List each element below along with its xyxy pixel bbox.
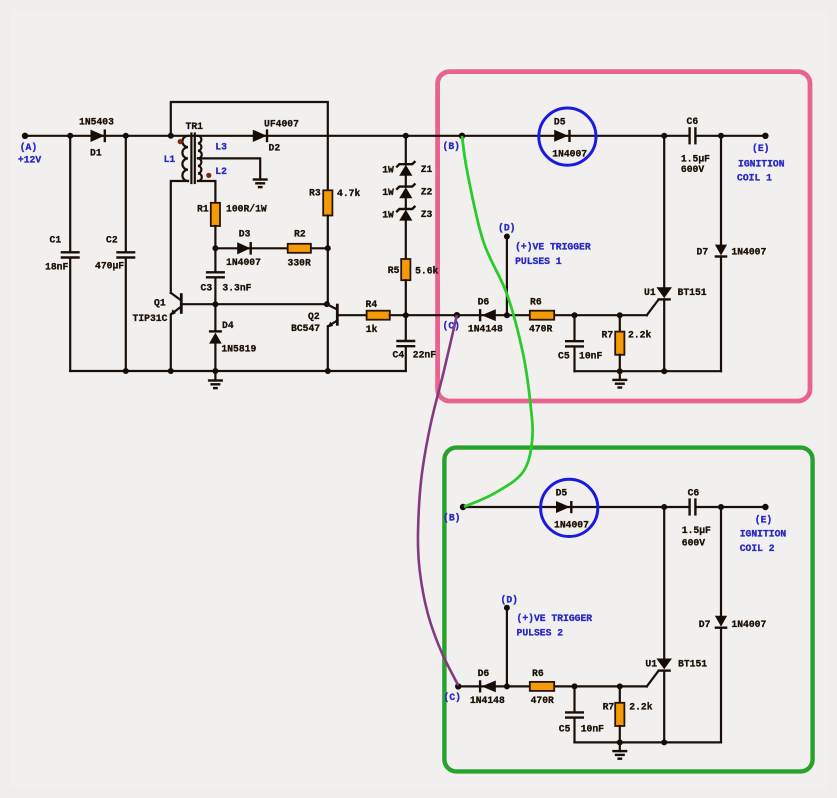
wire trigger row section 1 bbox=[457, 314, 647, 316]
resistor R2 330R bbox=[288, 244, 311, 253]
resistor R1 100R/1W bbox=[211, 203, 220, 226]
svg-text:C5: C5 bbox=[559, 723, 571, 734]
node D section 2 bbox=[506, 608, 508, 687]
node junction zener-top bbox=[403, 133, 409, 139]
svg-text:D2: D2 bbox=[269, 143, 281, 154]
svg-text:1N5403: 1N5403 bbox=[79, 117, 114, 128]
svg-text:R6: R6 bbox=[532, 668, 544, 679]
svg-text:BT151: BT151 bbox=[678, 658, 707, 669]
transistor Q2 BC547 bbox=[336, 304, 339, 326]
wire bottom section 1 bbox=[575, 370, 722, 372]
svg-text:470μF: 470μF bbox=[95, 261, 124, 272]
svg-text:Z3: Z3 bbox=[421, 209, 433, 220]
wire link B1 to B2 (green) bbox=[462, 136, 533, 507]
svg-text:R5: R5 bbox=[388, 265, 400, 276]
inductor L3 winding bbox=[198, 136, 202, 159]
wire C6 to E bbox=[696, 135, 765, 137]
diode D4 1N5819 bbox=[214, 304, 216, 331]
svg-text:L2: L2 bbox=[215, 166, 227, 177]
capacitor C1 18nF bbox=[69, 136, 71, 251]
node C section 1 bbox=[454, 312, 460, 318]
resistor R6 470R section 2 bbox=[530, 682, 554, 691]
node junction D7-top bbox=[718, 133, 724, 139]
node C section 2 bbox=[455, 683, 461, 689]
inductor L2 winding bbox=[198, 158, 202, 181]
svg-text:600V: 600V bbox=[681, 164, 704, 175]
box IGNITION COIL 2 (green) bbox=[444, 448, 812, 772]
svg-text:(D): (D) bbox=[498, 222, 515, 233]
capacitor C6 1.5uF 600V bbox=[688, 127, 690, 144]
svg-text:BT151: BT151 bbox=[678, 287, 707, 298]
diode D6 1N4148 section 1 bbox=[482, 309, 496, 321]
svg-text:C6: C6 bbox=[687, 116, 699, 127]
svg-text:R6: R6 bbox=[530, 297, 542, 308]
node B section 1 bbox=[459, 133, 465, 139]
svg-text:10nF: 10nF bbox=[579, 351, 602, 362]
node junction U1-top section 2 bbox=[661, 504, 667, 510]
capacitor C5 10nF section 1 bbox=[572, 312, 578, 318]
svg-text:C4: C4 bbox=[393, 349, 405, 360]
node D section 1 bbox=[506, 237, 508, 316]
node junction U1-cathode-bottom section 1 bbox=[661, 368, 667, 374]
resistor R6 470R section 1 bbox=[530, 311, 554, 320]
svg-text:R3: R3 bbox=[309, 188, 321, 199]
wire R2R3 junction to Q2 collector bbox=[327, 248, 329, 304]
capacitor C6 1.5uF 600V section 2 bbox=[688, 498, 690, 515]
svg-text:(+)VE TRIGGER: (+)VE TRIGGER bbox=[515, 242, 591, 253]
svg-text:3.3nF: 3.3nF bbox=[222, 282, 251, 293]
svg-text:C1: C1 bbox=[50, 235, 62, 246]
svg-text:1.5μF: 1.5μF bbox=[681, 154, 710, 165]
node junction R7-bottom section 1 bbox=[617, 368, 623, 374]
capacitor C3 3.3nF bbox=[214, 248, 216, 271]
svg-text:C3: C3 bbox=[201, 282, 213, 293]
svg-text:Z2: Z2 bbox=[421, 186, 433, 197]
svg-text:Z1: Z1 bbox=[421, 164, 433, 175]
capacitor C5 10nF section 2 bbox=[572, 683, 578, 689]
node junction R7-bottom section 2 bbox=[617, 739, 623, 745]
box IGNITION COIL 1 (pink) bbox=[438, 72, 810, 401]
svg-text:5.6k: 5.6k bbox=[415, 265, 438, 276]
svg-text:R4: R4 bbox=[366, 299, 378, 310]
wire Q1 base row bbox=[182, 303, 327, 305]
svg-text:D7: D7 bbox=[697, 247, 709, 258]
wire top feedback rect to R3 bbox=[171, 102, 328, 190]
resistor R3 4.7k bbox=[323, 190, 332, 215]
svg-text:2.2k: 2.2k bbox=[629, 702, 652, 713]
wire D3 row bbox=[215, 247, 287, 249]
diode D3 1N4007 bbox=[237, 242, 250, 254]
ground section 1 bbox=[619, 371, 621, 380]
wire bottom rail bbox=[70, 370, 406, 372]
node junction C1-top bbox=[67, 133, 73, 139]
node junction Q1-emitter-bottom bbox=[168, 368, 174, 374]
svg-text:TIP31C: TIP31C bbox=[133, 313, 168, 324]
svg-text:4.7k: 4.7k bbox=[337, 188, 360, 199]
svg-text:UF4007: UF4007 bbox=[264, 119, 299, 130]
node E section 2 bbox=[762, 504, 768, 510]
svg-text:D1: D1 bbox=[90, 148, 102, 159]
svg-text:1N4007: 1N4007 bbox=[731, 619, 766, 630]
svg-text:PULSES 1: PULSES 1 bbox=[515, 256, 562, 267]
svg-text:D6: D6 bbox=[478, 297, 490, 308]
svg-text:(D): (D) bbox=[501, 595, 518, 606]
svg-text:D3: D3 bbox=[239, 228, 251, 239]
svg-text:1N4148: 1N4148 bbox=[468, 324, 503, 335]
node junction U1-cathode-bottom section 2 bbox=[661, 739, 667, 745]
wire link C1 to C2 (purple) bbox=[418, 315, 458, 685]
svg-text:1N4007: 1N4007 bbox=[552, 149, 587, 160]
zener Z3 1W bbox=[396, 206, 415, 212]
svg-text:L1: L1 bbox=[164, 154, 176, 165]
svg-text:1N4007: 1N4007 bbox=[226, 257, 261, 268]
wire B to C6 section 2 bbox=[463, 506, 688, 508]
svg-text:470R: 470R bbox=[531, 695, 554, 706]
wire zener stack top bbox=[405, 136, 407, 165]
svg-text:Q1: Q1 bbox=[154, 297, 166, 308]
ground main bbox=[214, 371, 216, 381]
node junction R5-C4 bbox=[403, 312, 409, 318]
svg-text:330R: 330R bbox=[288, 257, 311, 268]
svg-text:100R/1W: 100R/1W bbox=[226, 203, 267, 214]
diode D5 1N4007 in circle section 2 bbox=[541, 479, 598, 536]
node junction R1-D3 bbox=[212, 245, 218, 251]
diode D6 1N4148 section 2 bbox=[482, 681, 496, 693]
svg-text:D4: D4 bbox=[222, 320, 234, 331]
wire Q2 base to R4 bbox=[339, 314, 367, 316]
svg-text:1N4007: 1N4007 bbox=[731, 247, 766, 258]
zener Z2 1W bbox=[396, 184, 415, 190]
node junction C2-top bbox=[123, 133, 129, 139]
svg-text:R7: R7 bbox=[602, 330, 614, 341]
svg-text:(C): (C) bbox=[443, 321, 460, 332]
node junction TR1-top bbox=[168, 133, 174, 139]
svg-text:1W: 1W bbox=[382, 165, 394, 176]
svg-text:L3: L3 bbox=[215, 141, 227, 152]
wire C6 to E section 2 bbox=[696, 506, 765, 508]
svg-text:R7: R7 bbox=[603, 702, 615, 713]
wire L1 bottom to Q1 collector bbox=[171, 181, 188, 293]
svg-text:Q2: Q2 bbox=[308, 311, 320, 322]
svg-text:D5: D5 bbox=[556, 487, 568, 498]
svg-text:D6: D6 bbox=[478, 668, 490, 679]
svg-text:18nF: 18nF bbox=[45, 262, 68, 273]
svg-text:TR1: TR1 bbox=[186, 121, 204, 132]
wire trigger row section 2 bbox=[458, 685, 647, 687]
svg-text:R2: R2 bbox=[294, 229, 306, 240]
svg-text:(B): (B) bbox=[443, 513, 460, 524]
node junction Q2-emitter-bottom bbox=[325, 368, 331, 374]
svg-text:C6: C6 bbox=[688, 488, 700, 499]
node junction D7-top section 2 bbox=[718, 504, 724, 510]
svg-text:1N4007: 1N4007 bbox=[554, 520, 589, 531]
svg-text:1.5μF: 1.5μF bbox=[682, 525, 711, 536]
wire TR1 center tap bbox=[198, 158, 260, 179]
diode D1 1N5403 bbox=[91, 130, 105, 142]
node junction D4-bottom bbox=[212, 368, 218, 374]
svg-text:R1: R1 bbox=[197, 203, 209, 214]
capacitor C2 470uF bbox=[125, 136, 127, 251]
svg-text:1W: 1W bbox=[382, 210, 394, 221]
resistor R7 2.2k section 2 bbox=[617, 683, 623, 689]
svg-text:(E): (E) bbox=[752, 143, 769, 154]
svg-text:U1: U1 bbox=[645, 658, 657, 669]
svg-text:470R: 470R bbox=[529, 324, 552, 335]
diode D2 UF4007 bbox=[253, 130, 267, 142]
svg-text:C5: C5 bbox=[558, 351, 570, 362]
svg-text:D7: D7 bbox=[699, 619, 711, 630]
svg-text:(A): (A) bbox=[20, 142, 37, 153]
capacitor C4 22nF bbox=[405, 315, 407, 340]
diode D7 1N4007 section 2 bbox=[720, 507, 722, 616]
svg-text:IGNITION: IGNITION bbox=[740, 529, 787, 540]
svg-text:IGNITION: IGNITION bbox=[738, 158, 785, 169]
svg-text:C2: C2 bbox=[106, 235, 118, 246]
svg-text:PULSES 2: PULSES 2 bbox=[517, 628, 564, 639]
svg-text:(B): (B) bbox=[443, 141, 460, 152]
node A bbox=[22, 133, 28, 139]
svg-text:600V: 600V bbox=[682, 537, 705, 548]
svg-text:(E): (E) bbox=[755, 514, 772, 525]
svg-text:1N5819: 1N5819 bbox=[221, 344, 256, 355]
node junction U1-top bbox=[661, 133, 667, 139]
ground TR1 tap bbox=[253, 178, 268, 180]
node E section 1 bbox=[762, 133, 768, 139]
polarity dot L2 bbox=[206, 173, 211, 178]
svg-text:(+)VE TRIGGER: (+)VE TRIGGER bbox=[517, 613, 593, 624]
wire bottom section 2 bbox=[575, 741, 722, 743]
resistor R4 1k bbox=[367, 311, 390, 320]
node junction R2-R3 bbox=[325, 245, 331, 251]
svg-text:22nF: 22nF bbox=[413, 349, 436, 360]
thyristor U1 BT151 section 1 bbox=[663, 136, 665, 287]
resistor R5 5.6k bbox=[401, 259, 410, 280]
node junction Q2-collector bbox=[324, 301, 330, 307]
inductor L1 primary winding bbox=[182, 136, 188, 181]
diode D5 1N4007 in circle bbox=[539, 108, 596, 165]
node junction C2-bottom bbox=[123, 368, 129, 374]
wire B to C6 bbox=[462, 135, 688, 137]
zener Z1 1W bbox=[396, 161, 415, 167]
svg-text:D5: D5 bbox=[554, 116, 566, 127]
node B section 2 bbox=[460, 504, 466, 510]
svg-text:(C): (C) bbox=[444, 692, 461, 703]
svg-text:1W: 1W bbox=[382, 187, 394, 198]
node junction C3-D4 bbox=[212, 301, 218, 307]
svg-text:COIL 2: COIL 2 bbox=[740, 543, 775, 554]
svg-text:1k: 1k bbox=[366, 324, 378, 335]
svg-text:10nF: 10nF bbox=[581, 723, 604, 734]
polarity dot L1 bbox=[178, 139, 183, 144]
wire L2 bottom to R1 bbox=[198, 181, 215, 203]
svg-text:1N4148: 1N4148 bbox=[470, 695, 505, 706]
svg-text:COIL 1: COIL 1 bbox=[737, 173, 772, 184]
svg-text:2.2k: 2.2k bbox=[628, 330, 651, 341]
svg-text:+12V: +12V bbox=[18, 154, 41, 165]
resistor R7 2.2k section 1 bbox=[617, 312, 623, 318]
ground section 2 bbox=[619, 742, 621, 751]
diode D7 1N4007 section 1 bbox=[720, 136, 722, 245]
svg-text:BC547: BC547 bbox=[291, 323, 320, 334]
transistor Q1 TIP31C bbox=[180, 293, 183, 314]
transformer TR1 core bbox=[190, 134, 192, 184]
wire main +12V rail A to B bbox=[25, 135, 462, 137]
thyristor U1 BT151 section 2 bbox=[663, 507, 665, 659]
svg-text:U1: U1 bbox=[644, 287, 656, 298]
wire R4 to node C bbox=[390, 314, 457, 316]
